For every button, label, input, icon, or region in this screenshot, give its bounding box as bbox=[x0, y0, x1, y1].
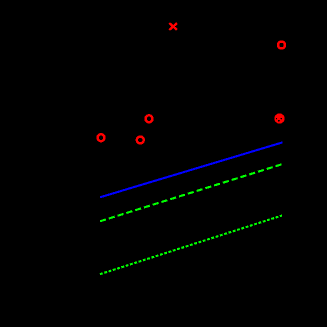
red circle marker 3 bbox=[146, 115, 153, 122]
blue solid trend line bbox=[100, 142, 283, 197]
green dashed trend line (upper) bbox=[100, 164, 282, 221]
red circle marker 1 (left) bbox=[98, 134, 105, 141]
red overlapping-markers cluster (right, three coincident circles) bbox=[274, 113, 284, 123]
red circle marker 2 bbox=[137, 137, 144, 144]
green fine-dashed trend line (lower) bbox=[100, 216, 282, 275]
red x marker bbox=[169, 23, 177, 30]
red circle marker 4 (top right) bbox=[278, 42, 285, 49]
